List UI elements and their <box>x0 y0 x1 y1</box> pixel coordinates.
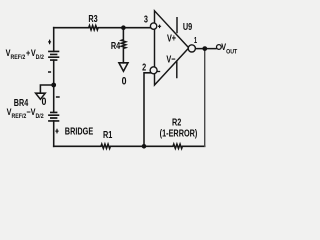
svg-text:R4: R4 <box>111 40 120 51</box>
svg-text:BRIDGE: BRIDGE <box>65 125 94 136</box>
svg-text:R2: R2 <box>172 116 181 127</box>
svg-text:V−: V− <box>166 53 175 64</box>
svg-text:R3: R3 <box>88 13 97 24</box>
svg-text:0: 0 <box>122 75 127 87</box>
svg-text:(1-ERROR): (1-ERROR) <box>160 127 198 138</box>
svg-text:2: 2 <box>142 61 146 72</box>
svg-text:3: 3 <box>144 13 148 24</box>
svg-text:R1: R1 <box>103 129 112 140</box>
svg-text:0: 0 <box>42 96 47 108</box>
svg-text:V+: V+ <box>167 32 176 43</box>
svg-text:1: 1 <box>194 37 197 45</box>
svg-text:U9: U9 <box>183 21 192 32</box>
